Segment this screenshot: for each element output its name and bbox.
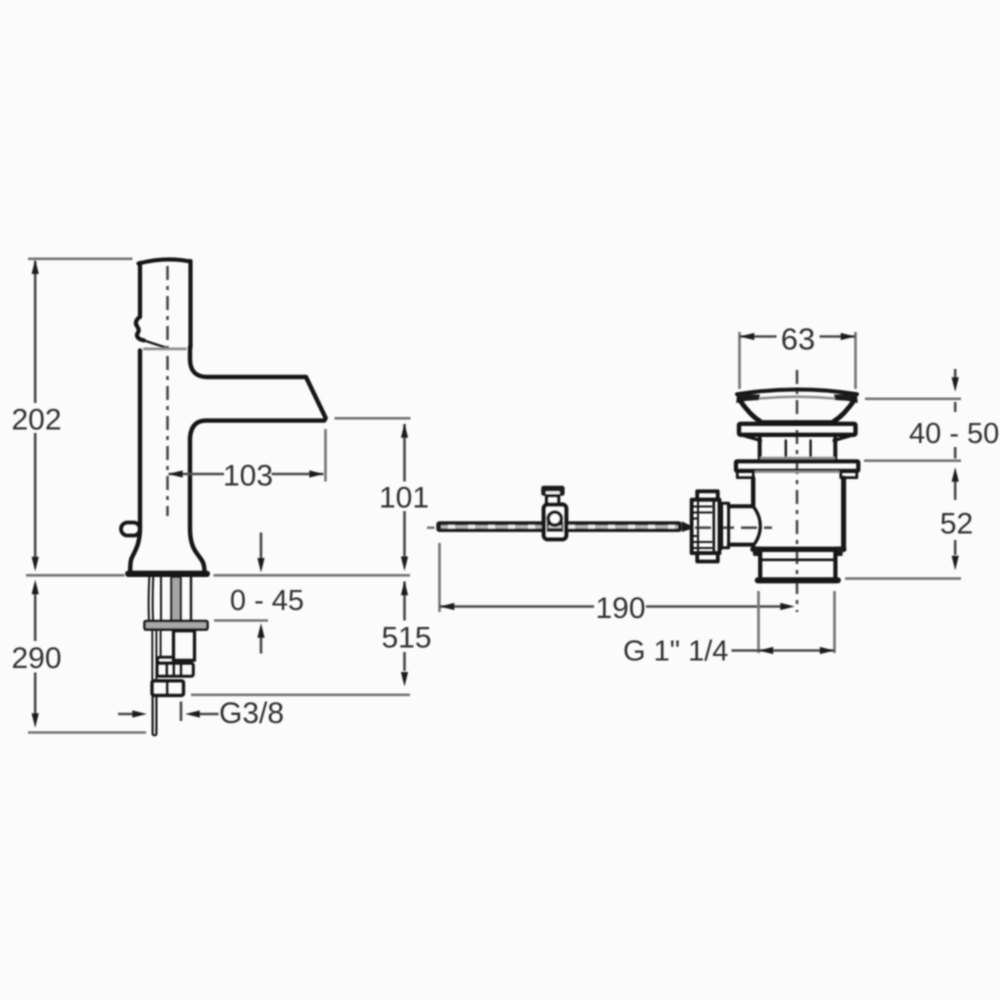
upper flange: [739, 424, 856, 435]
ext line washer top: [214, 619, 268, 622]
drain centerline vertical: [796, 370, 799, 612]
collar: [158, 657, 174, 663]
rod clamp: [541, 486, 564, 496]
bottom hex nut: [152, 681, 184, 696]
dimension 40-50 line: [954, 369, 957, 459]
svg-text:101: 101: [379, 482, 429, 515]
coupling nut: [697, 491, 718, 499]
dimension 0-45 line: [260, 533, 263, 654]
faucet base bottom: [128, 571, 207, 577]
waste cylinder: [760, 439, 836, 460]
svg-text:190: 190: [595, 592, 645, 625]
side port: [729, 506, 753, 544]
dimension 101 line: [403, 424, 406, 557]
svg-text:290: 290: [11, 642, 61, 675]
horizontal rod: [436, 521, 682, 532]
valve body: [174, 631, 195, 661]
svg-text:63: 63: [781, 322, 815, 357]
lower flange: [736, 461, 858, 471]
drain rod centerline: [695, 526, 772, 529]
compression fitting: [157, 663, 193, 676]
ext line 190 left: [438, 543, 441, 612]
plug funnel sides: [739, 400, 760, 421]
plug top rim: [737, 390, 857, 395]
aerator side knob: [121, 523, 140, 536]
dimension 202 line: [34, 261, 37, 558]
outlet tube: [760, 551, 835, 578]
ext line faucet tail bottom: [28, 731, 146, 734]
faucet handle: [136, 263, 144, 340]
svg-text:G3/8: G3/8: [219, 697, 284, 730]
port intersection arc: [753, 506, 760, 545]
faucet body left edge: [130, 351, 140, 571]
svg-text:515: 515: [381, 622, 431, 655]
body bottom: [753, 547, 844, 552]
faucet centerline: [166, 266, 169, 516]
dimension 52 line: [954, 482, 957, 556]
svg-text:103: 103: [223, 460, 273, 493]
svg-text:G 1" 1/4: G 1" 1/4: [623, 636, 728, 668]
dimension 515 line: [403, 582, 406, 672]
handle base line: [143, 347, 187, 350]
svg-text:0 - 45: 0 - 45: [230, 585, 304, 617]
ext line supply bottom: [191, 693, 410, 696]
dimension 63 line: [740, 335, 856, 338]
dimension 290 line: [34, 594, 37, 714]
dimension G 1 1/4 line: [732, 649, 835, 652]
ext line spout tip horizontal: [335, 417, 411, 420]
ext lines right side: [865, 397, 961, 400]
G3/8 tick: [180, 702, 183, 722]
ext line spout tip vertical: [324, 429, 327, 482]
supply pipes under base: [148, 577, 151, 620]
svg-text:52: 52: [940, 508, 973, 541]
dimension G3/8 line: [118, 713, 219, 716]
handle lever split line: [144, 340, 169, 348]
ext lines G 1 1/4: [759, 591, 835, 653]
ext line counter right: [214, 574, 411, 577]
faucet body right edge and spout: [190, 347, 326, 570]
under-washer rods: [151, 630, 153, 681]
dimension 190 line: [440, 605, 782, 608]
threaded stud: [171, 577, 180, 621]
svg-text:40 - 50: 40 - 50: [909, 418, 999, 450]
ext line counter left: [26, 574, 125, 577]
dimension 103 line: [169, 473, 324, 476]
mounting washer: [145, 621, 208, 630]
ext line faucet top: [28, 257, 133, 260]
svg-text:202: 202: [11, 404, 61, 437]
ext lines 63: [740, 332, 856, 389]
drain body walls: [751, 478, 755, 548]
flexible tail rod: [153, 696, 157, 734]
